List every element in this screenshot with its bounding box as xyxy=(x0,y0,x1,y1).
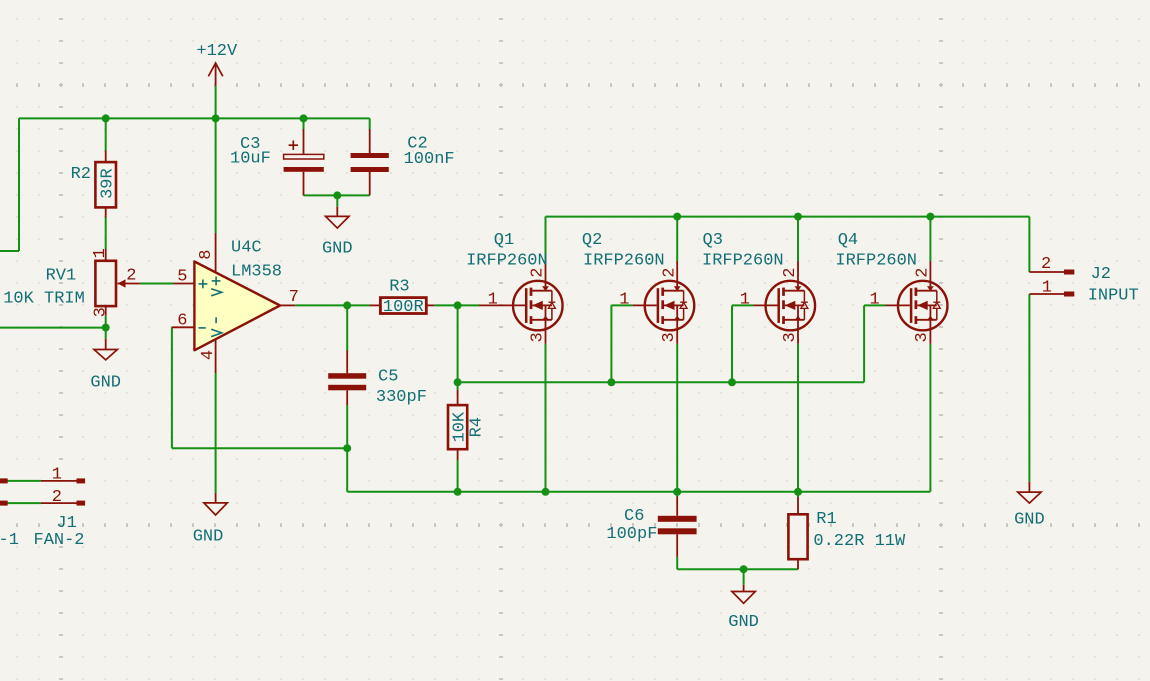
svg-text:2: 2 xyxy=(781,267,800,277)
svg-text:2: 2 xyxy=(52,488,62,507)
svg-text:1: 1 xyxy=(619,291,629,310)
svg-text:3: 3 xyxy=(660,332,679,342)
svg-text:GND: GND xyxy=(90,374,121,393)
svg-text:C6: C6 xyxy=(624,507,644,526)
svg-text:6: 6 xyxy=(177,312,187,331)
svg-text:R3: R3 xyxy=(389,278,409,297)
svg-text:C5: C5 xyxy=(378,367,398,386)
svg-text:3: 3 xyxy=(913,332,932,342)
svg-text:Q3: Q3 xyxy=(703,231,723,250)
svg-text:IRFP260N: IRFP260N xyxy=(835,251,917,270)
svg-text:1: 1 xyxy=(740,291,750,310)
svg-text:3: 3 xyxy=(781,332,800,342)
svg-text:4: 4 xyxy=(199,350,218,360)
svg-text:10uF: 10uF xyxy=(230,149,271,168)
svg-text:2: 2 xyxy=(126,267,136,286)
svg-text:R2: R2 xyxy=(71,165,91,184)
svg-text:1: 1 xyxy=(52,465,62,484)
svg-text:J2: J2 xyxy=(1091,265,1111,284)
svg-text:GND: GND xyxy=(1014,511,1045,530)
svg-text:100nF: 100nF xyxy=(404,150,455,169)
svg-text:GND: GND xyxy=(322,239,353,258)
svg-text:IRFP260N: IRFP260N xyxy=(702,251,784,270)
svg-text:IRFP260N: IRFP260N xyxy=(583,251,665,270)
svg-text:1: 1 xyxy=(1042,279,1052,298)
svg-text:8: 8 xyxy=(197,250,216,260)
svg-text:1: 1 xyxy=(91,248,110,258)
svg-text:R4: R4 xyxy=(468,417,487,437)
svg-text:5: 5 xyxy=(177,268,187,287)
svg-text:1: 1 xyxy=(488,291,498,310)
svg-text:+12V: +12V xyxy=(196,42,238,61)
svg-text:Q4: Q4 xyxy=(838,231,858,250)
svg-text:RV1: RV1 xyxy=(46,267,77,286)
svg-text:LM358: LM358 xyxy=(231,262,282,281)
svg-text:FAN-2: FAN-2 xyxy=(34,531,85,550)
svg-text:Q1: Q1 xyxy=(494,231,514,250)
svg-text:100R: 100R xyxy=(383,298,424,317)
svg-text:U4C: U4C xyxy=(231,239,262,258)
svg-text:3: 3 xyxy=(92,307,111,317)
svg-text:GND: GND xyxy=(193,527,224,546)
svg-text:IRFP260N: IRFP260N xyxy=(466,251,548,270)
svg-text:330pF: 330pF xyxy=(376,388,427,407)
svg-text:0.22R 11W: 0.22R 11W xyxy=(813,532,906,551)
svg-text:3: 3 xyxy=(528,332,547,342)
svg-text:GND: GND xyxy=(728,613,759,632)
svg-text:7: 7 xyxy=(289,288,299,307)
svg-text:1: 1 xyxy=(870,291,880,310)
svg-text:10K TRIM: 10K TRIM xyxy=(3,289,85,308)
svg-text:R1: R1 xyxy=(816,510,836,529)
svg-text:INPUT: INPUT xyxy=(1088,287,1139,306)
svg-text:100pF: 100pF xyxy=(606,525,657,544)
svg-text:39R: 39R xyxy=(99,168,118,199)
svg-text:2: 2 xyxy=(1041,255,1051,274)
svg-text:Q2: Q2 xyxy=(582,231,602,250)
svg-text:-1: -1 xyxy=(0,531,19,550)
